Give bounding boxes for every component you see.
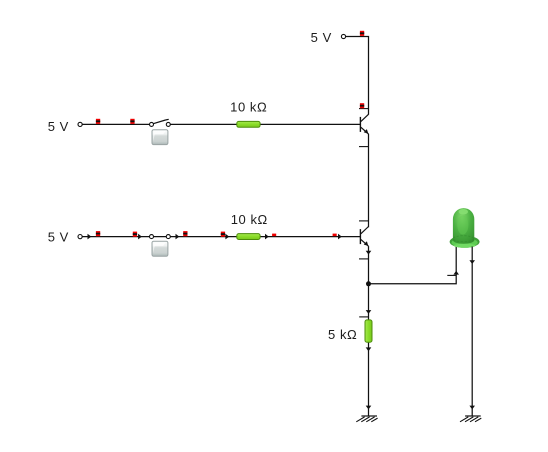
push button for SW2 <box>152 241 168 256</box>
current arrow (above R3) <box>366 310 372 314</box>
LED D1 (green) <box>450 208 480 248</box>
wire switch SW1 to Q1 base <box>170 123 360 125</box>
current arrow a2 <box>138 234 142 240</box>
charge marker s5 (thin) <box>272 234 276 237</box>
charge marker (upper wire 1) <box>96 119 100 124</box>
current arrow (above ground G2) <box>469 406 475 410</box>
junction node <box>366 281 371 286</box>
svg-text:5 V: 5 V <box>311 30 332 45</box>
wire LED cathode down to ground G2 <box>471 247 473 416</box>
svg-text:5 V: 5 V <box>48 230 69 245</box>
current arrow (above ground G1) <box>366 406 372 410</box>
pin tick (LED anode) <box>447 274 456 276</box>
pin tick (R3 top) <box>359 316 368 318</box>
resistor R3 5 kOhm <box>365 320 372 342</box>
current arrow a3 <box>176 234 180 240</box>
switch SW2 (closed) <box>150 235 171 239</box>
wire Q2 emitter down to ground G1 <box>368 246 370 415</box>
terminal (top 5 V source) <box>341 34 345 38</box>
wire top feed to Q1 collector <box>346 37 369 115</box>
current arrow (LED cathode) <box>469 260 475 264</box>
wire upper input to switch <box>82 123 149 125</box>
terminal (lower 5 V source) <box>78 235 82 239</box>
transistor Q2 (NPN) <box>359 221 369 259</box>
wire junction to LED anode <box>369 247 457 284</box>
resistor R2 10 kOhm <box>237 234 260 240</box>
current arrow (below R3) <box>366 347 372 351</box>
charge marker s6 (thin) <box>333 234 337 237</box>
current arrow (LED anode, up) <box>453 271 459 275</box>
wire switch SW2 to Q2 base <box>170 236 360 238</box>
transistor Q1 (NPN) <box>359 109 369 147</box>
current arrow a6 <box>338 234 342 240</box>
resistor R1 10 kOhm <box>237 121 260 127</box>
charge marker s1 <box>96 231 100 236</box>
charge marker (top wire) <box>360 31 364 36</box>
charge marker (Q1 collector) <box>360 103 364 108</box>
svg-text:5 V: 5 V <box>48 119 69 134</box>
push button for SW1 <box>152 130 168 145</box>
ground G2 <box>460 416 481 422</box>
charge marker (upper wire 2) <box>130 119 134 124</box>
charge marker s4 <box>221 232 225 237</box>
current arrow a5 <box>265 234 269 240</box>
svg-text:10 kΩ: 10 kΩ <box>231 212 268 227</box>
svg-text:5 kΩ: 5 kΩ <box>328 327 357 342</box>
wire Q1 emitter to Q2 collector <box>368 134 370 227</box>
current arrow a1 <box>88 234 92 240</box>
charge marker s2 <box>133 232 137 237</box>
current arrow a4 <box>225 234 229 240</box>
svg-text:10 kΩ: 10 kΩ <box>230 99 267 114</box>
charge marker s3 <box>183 231 187 236</box>
ground G1 <box>356 416 377 422</box>
wire lower input to switch <box>82 236 149 238</box>
current arrow (Q2 emitter) <box>366 251 372 255</box>
switch SW1 (open) <box>150 119 171 126</box>
terminal (upper 5 V source) <box>78 122 82 126</box>
